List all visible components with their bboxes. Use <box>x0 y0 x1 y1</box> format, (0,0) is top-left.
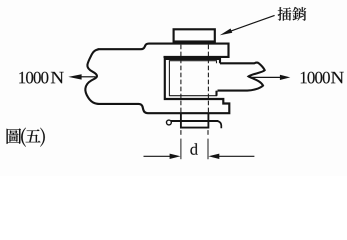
caption 圖(五) glyph 圖 <box>7 128 22 144</box>
pin P1 protruding end below clevis <box>181 113 209 128</box>
cotter pin bent end (hook) <box>217 121 221 128</box>
force arrow right head <box>280 75 290 80</box>
dimension line right segment <box>219 155 255 157</box>
slot inner (thin) outline <box>169 61 216 96</box>
pin P1 head <box>174 29 215 41</box>
caption glyph ( <box>21 128 26 147</box>
dimension arrowhead right (pointing left) <box>208 154 219 159</box>
leader arrowhead at pin head <box>220 29 233 36</box>
label 插銷 (pin) glyph 銷 <box>292 7 306 21</box>
dimension text d <box>190 143 197 155</box>
force arrow left shaft <box>81 76 96 78</box>
left member break squiggle (left end) <box>85 49 98 104</box>
dimension extension line left <box>180 139 182 160</box>
dimension line left segment <box>144 155 171 157</box>
force arrow right shaft <box>250 76 281 78</box>
leader line to pin label <box>231 15 275 31</box>
right member bar with break point end <box>217 63 265 96</box>
caption glyph 五 <box>26 129 41 142</box>
caption glyph ) <box>40 128 45 147</box>
cotter pin ring (left loop) <box>167 120 172 125</box>
label 1000 N right <box>301 72 344 84</box>
force arrow left head <box>68 74 81 79</box>
pin hidden edge dash continuation left <box>180 130 182 135</box>
dimension arrowhead left (pointing right) <box>170 154 181 159</box>
pin P1 hidden shank right edge (dashed) <box>207 45 209 113</box>
label 插銷 (pin) glyph 插 <box>278 7 292 21</box>
left member upper outline with step to boss top <box>98 44 229 57</box>
cotter pin shaft through pin <box>171 120 218 122</box>
pin P1 hidden shank left edge (dashed) <box>180 45 182 113</box>
pin hidden edge dash continuation right <box>207 130 209 135</box>
left member lower outline: bar bottom edge, step down, clevis bottom band, right edge, jog, slot outer bottom, slot outer left, slot outer top, step to right bar <box>98 59 230 113</box>
dimension extension line right <box>207 139 209 160</box>
label 1000 N left <box>19 72 63 84</box>
